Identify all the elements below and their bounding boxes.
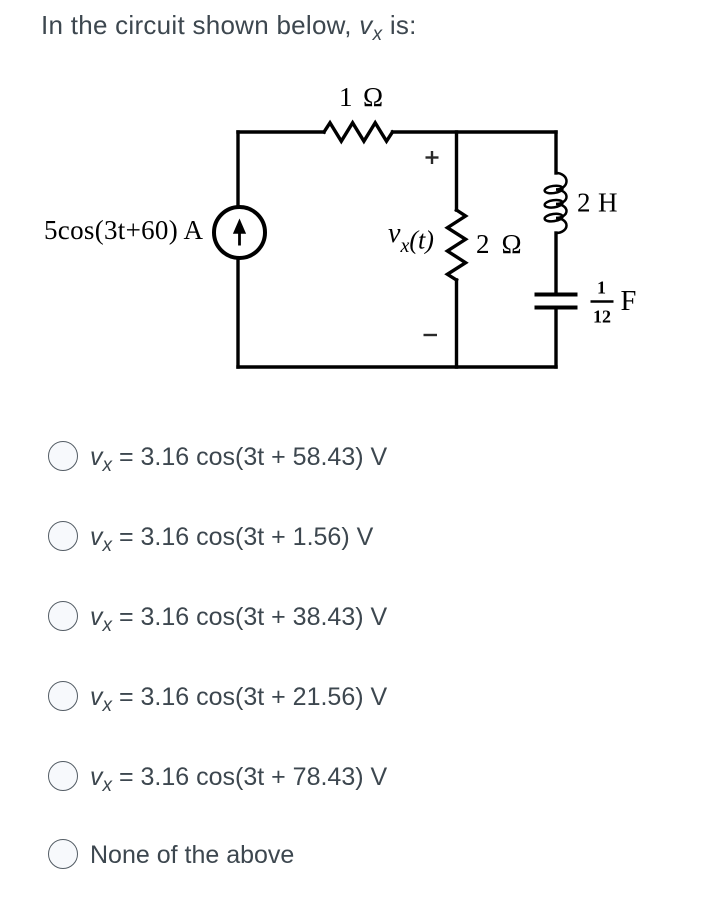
- svg-text:1: 1: [339, 82, 353, 112]
- svg-text:Ω: Ω: [502, 229, 522, 259]
- polarity plus sign: [426, 151, 439, 164]
- svg-text:12: 12: [593, 307, 611, 327]
- wire top-right segment: [393, 130, 557, 133]
- svg-text:1: 1: [597, 278, 606, 298]
- option 5: [48, 762, 387, 794]
- option 4: [48, 682, 387, 714]
- resistor R 1ohm zigzag: [324, 123, 393, 141]
- svg-text:F: F: [621, 286, 637, 317]
- svg-text:5cos(3t+60) A: 5cos(3t+60) A: [44, 215, 204, 245]
- resistor R 2ohm zigzag: [447, 210, 465, 280]
- wire left top segment: [236, 132, 239, 206]
- svg-text:Ω: Ω: [363, 82, 383, 112]
- option 1: [48, 442, 387, 474]
- option 6: [48, 839, 294, 871]
- option 3: [48, 602, 387, 634]
- wire middle top segment: [455, 132, 458, 210]
- polarity minus sign: [424, 334, 438, 336]
- wire middle bottom segment: [455, 280, 458, 367]
- wire inductor to capacitor: [554, 233, 557, 293]
- wire right bottom segment: [554, 310, 557, 368]
- option 2: [48, 522, 373, 554]
- svg-text:vx(t): vx(t): [388, 218, 434, 257]
- wire bottom: [238, 365, 556, 368]
- capacitor C plates: [535, 295, 578, 308]
- wire top-left segment: [238, 130, 324, 133]
- inductor L 2H coil: [544, 173, 566, 233]
- wire right top segment: [554, 132, 557, 173]
- current source I1 arrow: [233, 219, 246, 246]
- wire left bottom segment: [236, 259, 239, 367]
- svg-text:2: 2: [577, 188, 591, 218]
- question text: [41, 12, 417, 38]
- svg-text:H: H: [598, 188, 618, 218]
- svg-text:2: 2: [476, 229, 490, 259]
- current source I1 circle: [214, 207, 265, 258]
- label capacitor fraction 1/12: [591, 278, 614, 327]
